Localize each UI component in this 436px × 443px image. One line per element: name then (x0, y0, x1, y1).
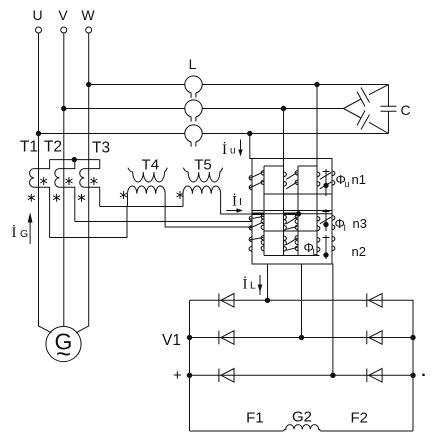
capacitor plates on top diagonal (357, 88, 370, 107)
transductor S2 right edge winding (332, 216, 335, 230)
transductor S2 leg4 winding (317, 217, 320, 231)
transformer T5 primary winding (183, 186, 221, 194)
svg-text:n2: n2 (352, 244, 366, 259)
T5 polarity asterisk (177, 191, 184, 199)
CT T2 secondary top loop (59, 160, 74, 222)
node U-line junction (36, 131, 40, 135)
CT T1 polarity asterisk upper (40, 177, 47, 185)
capacitor C plates (381, 106, 397, 111)
transformer T4 secondary winding (128, 168, 167, 182)
svg-text:I: I (344, 223, 347, 233)
svg-text:L: L (189, 56, 197, 72)
diode D5 bot-left (219, 369, 234, 383)
svg-text:İ: İ (232, 194, 237, 210)
stray dot right (422, 374, 424, 376)
wire T5 primary right lead to block (221, 194, 252, 214)
transductor core S1 horizontals (264, 166, 332, 194)
svg-text:C: C (401, 102, 411, 118)
svg-text:~: ~ (56, 339, 71, 369)
node bridge top IL dot (265, 298, 269, 302)
transductor S1 diagonals (249, 172, 331, 189)
transductor core leg 2 (283, 166, 285, 256)
CT T1 secondary top loop (34, 160, 50, 238)
wire after loop2 (202, 108, 343, 110)
diode D4 mid-right (367, 331, 382, 345)
svg-text:+: + (173, 367, 182, 384)
flux arrow phi-L (323, 235, 330, 259)
svg-text:T5: T5 (194, 157, 212, 174)
wire T5 primary left lead (182, 194, 184, 207)
transductor S1 left edge winding (249, 176, 252, 190)
svg-text:n3: n3 (353, 216, 367, 231)
svg-text:T1: T1 (20, 139, 38, 156)
wire block to bridge right (331, 264, 334, 375)
node T2 loop corner dot (72, 157, 76, 161)
wire T4 primary right lead (165, 194, 252, 227)
wire T1 output horizontal (50, 207, 128, 238)
CT T1 polarity asterisk lower (28, 194, 35, 202)
CT T3 polarity asterisk lower (78, 194, 85, 202)
wire phase W horizontal (89, 84, 185, 86)
wire V feeder into block (283, 109, 285, 167)
transformer T4 primary winding (128, 186, 166, 194)
transductor S3 diagonals (249, 237, 297, 250)
node W-line junction (87, 82, 91, 86)
transductor S1 leg1 winding (261, 171, 264, 185)
svg-text:G: G (20, 228, 28, 240)
svg-text:T2: T2 (44, 139, 62, 156)
flux arrow phi-I (323, 209, 330, 231)
svg-text:U: U (32, 7, 42, 23)
CT T2 polarity asterisk lower (53, 194, 60, 202)
transductor S2 leg2 winding (284, 215, 287, 230)
CT T1 coil (29, 169, 34, 188)
diode D6 bot-right (367, 369, 382, 383)
CT T3 secondary top loop (84, 160, 99, 207)
node Iu feeder dot (248, 131, 252, 135)
diode D1 top-left (219, 294, 234, 308)
wire T4 primary left lead (127, 194, 129, 207)
wire W feeder into block (316, 85, 318, 167)
node S2 yoke junction (296, 212, 300, 216)
wire CT common top bus (50, 159, 100, 161)
wire phase U horizontal (39, 133, 185, 135)
svg-text:I: I (239, 196, 242, 208)
svg-text:İ: İ (222, 142, 227, 158)
CT T2 polarity asterisk upper (66, 177, 73, 185)
CT T2 coil (55, 169, 60, 188)
svg-text:F1: F1 (246, 410, 264, 427)
svg-text:İ: İ (243, 277, 248, 293)
node bridge row2 dots (187, 335, 191, 339)
node V-line junction (62, 106, 66, 110)
svg-text:T4: T4 (142, 157, 160, 174)
CT T3 polarity asterisk upper (90, 177, 97, 185)
inductor L loop 2 (185, 100, 202, 122)
svg-text:W: W (81, 7, 95, 23)
svg-text:u: u (345, 179, 350, 189)
svg-text:F2: F2 (351, 410, 369, 427)
wire after loop3 (202, 133, 388, 135)
generator G circle (46, 326, 81, 361)
diode D2 top-right (367, 294, 382, 308)
transductor S3 right edge winding (332, 237, 335, 251)
transductor S2 leg1 winding (261, 215, 264, 230)
transductor S3 leg4 winding (317, 238, 320, 252)
svg-text:L: L (250, 280, 256, 292)
transductor S2 left edge winding (249, 216, 252, 230)
bridge row3 wire (190, 374, 414, 376)
transductor S3 leg1 winding (261, 236, 264, 251)
transductor S2 bottom (264, 230, 317, 232)
transductor S3 leg2 winding (284, 236, 287, 251)
wire phase V vertical (63, 33, 65, 327)
transductor S3 left edge winding (249, 237, 252, 251)
transductor S2 diagonals (249, 216, 331, 229)
inductor L loop 1 (185, 76, 202, 98)
transductor block outer rectangle (252, 159, 332, 265)
transductor S3 leg3 winding (295, 236, 298, 251)
capacitor right vertical (388, 85, 390, 134)
transductor S1 leg2 winding (284, 172, 287, 186)
terminal U circle (36, 27, 42, 33)
svg-text:u: u (230, 146, 236, 157)
svg-text:G2: G2 (292, 408, 312, 425)
node W feeder dot (315, 82, 319, 86)
capacitor delta top diagonal (344, 85, 389, 109)
wire phase W vertical (76, 33, 89, 333)
transductor S3 bottom (264, 255, 320, 257)
svg-text:n1: n1 (352, 172, 366, 187)
CT T3 coil (80, 169, 85, 188)
diode bridge outer rectangle (190, 300, 414, 431)
terminal W circle (86, 27, 92, 33)
wire Iu feeder from U line (250, 134, 252, 159)
wire block to bridge left (IL) (267, 264, 269, 300)
transductor S1 leg4 winding (317, 172, 320, 186)
node V feeder dot (281, 106, 285, 110)
transductor S2 yoke thick segments (252, 213, 299, 216)
transductor S2 leg3 winding (295, 215, 298, 230)
capacitor plates on bottom diagonal (357, 111, 370, 130)
wire T2 output horizontal to block (75, 221, 252, 223)
inductor L loop 3 (185, 125, 202, 147)
svg-text:İ: İ (12, 225, 17, 241)
capacitor delta bottom diagonal (344, 109, 389, 134)
wire after loop1 (202, 84, 388, 86)
terminal V circle (61, 27, 67, 33)
wire phase V horizontal (64, 108, 185, 110)
transductor S2 yoke double band (252, 211, 332, 214)
wire block to bridge mid (301, 264, 303, 338)
transductor S1 leg3 winding (295, 171, 298, 185)
node bridge row3 dots (187, 373, 191, 377)
svg-text:T3: T3 (92, 139, 110, 156)
bridge row2 wire (190, 337, 414, 339)
svg-text:V: V (58, 7, 68, 23)
T4 polarity asterisk (120, 191, 127, 199)
transformer T5 secondary winding (183, 168, 222, 182)
inductor G2 coil on bottom wire (284, 425, 321, 431)
transductor core leg 3 (297, 166, 299, 256)
wire phase U vertical (39, 33, 52, 333)
diode D3 mid-left (219, 331, 234, 345)
transductor S1 right edge winding (332, 171, 335, 185)
flux arrow phi-u (323, 169, 330, 196)
transductor core leg 4 (316, 166, 318, 256)
svg-text:L: L (313, 247, 318, 257)
wire T3/T4/T5 primary chain (100, 206, 183, 208)
svg-text:V1: V1 (162, 332, 181, 349)
transductor core leg 1 (263, 166, 265, 256)
